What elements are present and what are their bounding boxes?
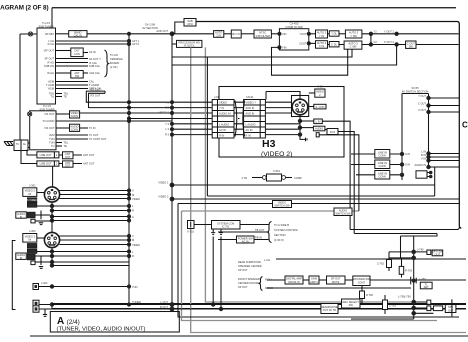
svg-text:X-701: X-701 [187,230,194,234]
svg-text:X-501: X-501 [273,169,280,173]
svg-text:COMP: COMP [294,176,302,180]
svg-text:IN: IN [29,192,32,196]
svg-text:R IN: R IN [246,134,251,138]
svg-text:OUT JK TR: OUT JK TR [323,308,336,312]
svg-text:SW: SW [75,74,80,78]
svg-text:TF CONT OUT: TF CONT OUT [89,137,107,141]
svg-text:T AGRM: T AGRM [89,83,99,87]
svg-text:SWITCH SW: SWITCH SW [335,212,351,216]
svg-text:M: M [132,238,134,242]
svg-text:(2 OF): (2 OF) [110,65,118,69]
svg-text:L 3: L 3 [165,127,169,131]
svg-text:TV AUDIO: TV AUDIO [42,119,54,123]
svg-text:TEL: TEL [64,141,69,145]
svg-text:C-761: C-761 [389,304,397,308]
svg-text:R CH: R CH [48,42,54,46]
svg-text:OUT: OUT [448,308,454,312]
svg-text:CONV: CONV [379,175,387,179]
svg-text:C DL: C DL [331,42,337,46]
svg-text:T AGM: T AGM [46,83,54,87]
svg-text:(TUNER, VIDEO, AUDIO IN/OUT): (TUNER, VIDEO, AUDIO IN/OUT) [57,327,146,333]
svg-text:TE: TE [64,95,68,99]
svg-text:REAR SURROUND: REAR SURROUND [238,260,261,264]
svg-text:SYSTEM CONTROL: SYSTEM CONTROL [274,228,299,232]
svg-text:AL: AL [23,142,27,146]
svg-text:AGM: AGM [48,87,54,91]
svg-text:SET: SET [424,285,429,289]
svg-text:3D Y/C: 3D Y/C [232,32,240,36]
svg-text:4 TR: 4 TR [241,176,247,180]
svg-text:AU IN: AU IN [246,128,253,132]
svg-text:UHF CAL: UHF CAL [89,71,101,75]
svg-text:AMP 2: AMP 2 [310,280,318,284]
svg-text:SUB ON: SUB ON [44,64,54,68]
svg-text:PB IN: PB IN [255,236,262,240]
svg-text:SP OUT: SP OUT [238,268,248,272]
svg-text:IN AG: IN AG [47,71,54,75]
svg-text:AVM: AVM [49,133,54,137]
svg-text:TUNER: TUNER [132,300,141,304]
svg-text:J-304: J-304 [41,281,48,285]
svg-text:R: R [132,209,134,213]
svg-text:Y IN: Y IN [319,34,324,38]
svg-text:TU: TU [16,142,20,146]
svg-text:TO A SIDE B: TO A SIDE B [274,223,289,227]
svg-text:CN-91: CN-91 [246,95,254,99]
svg-text:AF OUT Y: AF OUT Y [89,57,101,61]
svg-text:C SW: C SW [350,45,357,49]
svg-text:OUT: OUT [435,252,441,256]
svg-text:AF IN: AF IN [89,50,96,54]
svg-text:LINE OUT: LINE OUT [40,162,52,166]
svg-text:C 2: C 2 [165,106,170,110]
svg-text:R 3: R 3 [165,133,170,137]
svg-text:(3 OF 8): (3 OF 8) [274,238,284,242]
svg-text:VIN: VIN [282,32,286,36]
svg-text:AC IN: AC IN [242,239,249,243]
svg-text:CAL IN: CAL IN [74,33,82,37]
svg-text:V: V [132,234,134,238]
svg-text:VIF OUT: VIF OUT [44,112,55,116]
svg-text:H3: H3 [262,138,276,150]
svg-text:C2: C2 [374,40,378,44]
svg-text:J-302: J-302 [29,184,36,188]
svg-text:SWITCH SW: SWITCH SW [274,204,290,208]
svg-text:R IN: R IN [219,134,224,138]
svg-text:SPEAKER CENTER: SPEAKER CENTER [238,264,262,268]
svg-text:C OUT 2: C OUT 2 [384,40,395,44]
svg-text:VIDEO 2: VIDEO 2 [159,111,170,115]
svg-text:AUD OUT: AUD OUT [156,29,168,33]
svg-text:-R OUT/L: -R OUT/L [184,44,196,48]
svg-text:VIDEO Y: VIDEO Y [246,101,257,105]
svg-text:SUB CAL: SUB CAL [89,64,101,68]
svg-text:SUB TUNER: SUB TUNER [39,24,54,28]
svg-text:AUDIO IN: AUDIO IN [219,112,231,116]
svg-text:CONT: CONT [358,280,366,284]
svg-text:Y IN: Y IN [219,106,224,110]
svg-text:L-790: L-790 [398,295,405,299]
svg-text:TU-1.5: TU-1.5 [43,104,51,108]
svg-text:S VIDEO: S VIDEO [27,198,38,202]
svg-text:Y DL: Y DL [331,32,337,36]
svg-text:TUN: TUN [132,285,137,289]
svg-text:Y 2: Y 2 [165,101,169,105]
svg-text:R-763: R-763 [405,269,413,273]
svg-text:TU: TU [51,144,55,148]
svg-text:3.58 FILTER: 3.58 FILTER [255,34,270,38]
svg-text:Y SW: Y SW [350,34,357,38]
svg-text:Y OUT 2: Y OUT 2 [384,30,395,34]
svg-text:L CH: L CH [264,258,270,262]
svg-text:CONV: CONV [71,114,79,118]
svg-text:J-91: J-91 [214,95,220,99]
svg-text:M: M [132,193,134,197]
svg-text:TERMINAL: TERMINAL [110,57,124,61]
svg-text:J-740: J-740 [417,248,424,252]
svg-text:AUD IN: AUD IN [246,112,255,116]
svg-text:CON: CON [74,52,80,56]
svg-text:AGM: AGM [48,80,54,84]
svg-text:Y2: Y2 [374,30,378,34]
svg-text:AU IN: AU IN [219,128,226,132]
svg-text:TF IN: TF IN [89,126,96,130]
svg-text:ANT OUT: ANT OUT [83,153,95,157]
svg-text:TF OUT: TF OUT [89,133,99,137]
svg-text:R 760: R 760 [366,293,373,297]
svg-text:AUDIO IN: AUDIO IN [414,163,426,167]
svg-text:LINE OUT: LINE OUT [40,153,52,157]
svg-text:CONV: CONV [71,128,79,132]
svg-text:R: R [132,254,134,258]
svg-text:RX OUT: RX OUT [91,94,101,98]
svg-text:AV SWITCH SECTION: AV SWITCH SECTION [402,89,429,93]
svg-text:IN: IN [29,238,32,242]
svg-text:R IN: R IN [421,153,426,157]
svg-text:Y 3: Y 3 [165,122,169,126]
svg-text:IC 701: IC 701 [222,225,230,229]
svg-text:TUN: TUN [49,137,54,141]
svg-text:IF AG: IF AG [47,61,54,65]
svg-text:COMB FILTER: COMB FILTER [285,25,302,29]
svg-text:R OUT: R OUT [160,305,168,309]
svg-text:C-762: C-762 [377,262,385,266]
svg-text:FRONT SPEAKER: FRONT SPEAKER [238,277,260,281]
svg-text:VIDEO: VIDEO [132,197,140,201]
svg-text:IAGRAM (2 OF 8): IAGRAM (2 OF 8) [0,5,48,12]
svg-text:OUT: OUT [65,164,71,168]
svg-text:L AUDIO: L AUDIO [246,123,256,127]
svg-text:YOUT: YOUT [299,32,307,36]
svg-text:L-790: L-790 [404,295,411,299]
svg-text:CONV: CONV [379,154,387,158]
svg-text:TE: TE [64,144,68,148]
svg-text:V IN: V IN [421,157,426,161]
svg-text:YIN: YIN [282,45,286,49]
svg-text:AFT 0: AFT 0 [132,42,140,46]
svg-text:AUD IN: AUD IN [246,106,255,110]
svg-text:C OUT: C OUT [418,102,426,106]
svg-text:TUN: TUN [49,141,54,145]
svg-text:AF OUT: AF OUT [44,57,54,61]
svg-text:VIDEO 1: VIDEO 1 [158,181,169,185]
svg-text:COUT: COUT [299,41,307,45]
svg-text:IN: IN [20,256,23,260]
svg-text:V: V [132,189,134,193]
svg-text:CPU: CPU [187,22,193,26]
svg-text:VIF OUT: VIF OUT [44,126,55,130]
svg-text:L-760: L-760 [419,277,426,281]
svg-text:MUTE: MUTE [332,280,340,284]
svg-text:Y OUT: Y OUT [418,94,426,98]
svg-text:VIF OUT: VIF OUT [44,49,55,53]
svg-text:CONV: CONV [379,164,387,168]
svg-text:C: C [462,121,468,130]
svg-text:S. CON: S. CON [315,105,324,109]
svg-text:A: A [132,215,134,219]
svg-text:SW: SW [349,303,354,307]
svg-text:V OUT: V OUT [418,108,426,112]
svg-text:CENTER WOOFER: CENTER WOOFER [238,281,261,285]
svg-text:VIDEO 2: VIDEO 2 [158,195,169,199]
svg-text:R IN: R IN [330,130,335,134]
svg-text:SECTION: SECTION [274,233,286,237]
svg-text:IN: IN [20,215,23,219]
svg-text:WOOFER SW: WOOFER SW [353,277,370,281]
svg-text:OUT: OUT [65,155,71,159]
svg-text:2 IN: 2 IN [216,34,221,38]
svg-text:S IN: S IN [405,163,410,167]
svg-text:VIDEO: VIDEO [132,243,140,247]
svg-text:SW: SW [409,44,414,48]
svg-text:L IN: L IN [316,120,321,124]
svg-text:RF MIX: RF MIX [45,32,54,36]
svg-text:L OUT: L OUT [160,300,168,304]
svg-text:TB OUT: TB OUT [255,228,265,232]
svg-text:DRIVE IN: DRIVE IN [288,280,299,284]
svg-text:VIDEO: VIDEO [219,101,227,105]
svg-text:AUDIO: AUDIO [315,127,323,131]
svg-text:TO AN: TO AN [110,53,118,57]
svg-text:ANT OUT: ANT OUT [83,162,95,166]
svg-text:S IN: S IN [405,152,410,156]
svg-text:BOARD: BOARD [110,61,119,65]
svg-text:TU: TU [51,95,55,99]
svg-text:L IN: L IN [421,150,426,154]
svg-text:L AUDIO: L AUDIO [219,123,229,127]
svg-text:CAL: CAL [89,80,95,84]
svg-text:(VIDEO 2): (VIDEO 2) [261,151,292,158]
svg-text:C IN: C IN [319,44,324,48]
svg-text:SP OUT: SP OUT [238,285,248,289]
svg-text:J-303: J-303 [29,229,36,233]
svg-text:J-95: J-95 [317,85,323,89]
